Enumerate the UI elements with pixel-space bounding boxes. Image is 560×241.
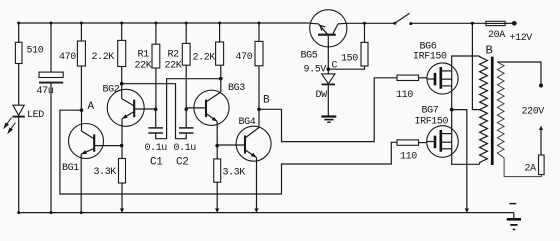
svg-text:LED: LED	[27, 110, 44, 121]
transistor BG4	[236, 126, 271, 161]
svg-text:2.2K: 2.2K	[193, 53, 216, 64]
capacitor C1	[155, 109, 157, 127]
zener diode DW	[327, 69, 329, 74]
node dot rail x219.6	[218, 22, 221, 25]
svg-text:22K: 22K	[165, 60, 182, 71]
transistor BG5	[310, 10, 347, 47]
wire secondary top to output terminal	[497, 62, 541, 85]
svg-text:R1: R1	[138, 49, 150, 60]
capacitor C2	[185, 109, 187, 127]
svg-text:BG4: BG4	[239, 117, 256, 128]
transformer core	[491, 57, 494, 165]
fuse 2A	[539, 155, 545, 175]
svg-text:+12V: +12V	[510, 33, 533, 44]
wire BG6 drain to primary top	[452, 56, 480, 110]
node dot rail x18.7	[17, 22, 20, 25]
svg-text:IRF150: IRF150	[413, 51, 447, 62]
svg-text:510: 510	[27, 46, 44, 57]
transistor BG3	[194, 90, 229, 125]
node dot bottom x81.2	[80, 211, 83, 214]
svg-text:IRF150: IRF150	[415, 116, 449, 127]
capacitor 47u	[50, 23, 52, 72]
switch S	[393, 22, 396, 25]
svg-text:R2: R2	[168, 49, 180, 60]
transformer secondary winding	[497, 62, 541, 177]
wire 2.2K to BG2 collector node	[121, 67, 123, 84]
wire top rail left	[19, 22, 310, 24]
junction arrow 3.3K to rail	[120, 209, 124, 213]
node dot rail x259	[258, 22, 261, 25]
svg-text:C1: C1	[150, 157, 163, 169]
LED light arrows	[4, 118, 15, 133]
resistor 470 second	[258, 23, 260, 41]
svg-text:2.2K: 2.2K	[92, 52, 115, 63]
svg-text:470: 470	[59, 52, 76, 63]
wire switch to fuse	[411, 22, 486, 24]
svg-text:B: B	[263, 95, 270, 107]
wire C2 bottom cross-couple to BG2 collector	[122, 84, 187, 139]
transistor BG1	[69, 124, 104, 159]
ground symbol right	[513, 213, 515, 219]
resistor 510	[18, 23, 20, 42]
LED D1	[13, 105, 24, 115]
wire node B to BG6 gate path	[259, 78, 397, 142]
transistor BG2	[107, 89, 144, 126]
node dot rail x51	[50, 22, 53, 25]
resistor R2 22K	[185, 23, 187, 43]
node dot R1/C1/BG2 base	[154, 108, 158, 112]
resistor 150	[363, 22, 366, 25]
node dot rail x155.9	[154, 22, 157, 25]
+12V terminal	[512, 21, 517, 26]
wire 470 to node A	[80, 66, 82, 110]
svg-text:3.3K: 3.3K	[223, 167, 246, 178]
wire 47u to bottom rail	[50, 84, 52, 213]
svg-text:BG5: BG5	[301, 51, 318, 62]
svg-text:150: 150	[341, 53, 358, 64]
svg-text:DW: DW	[316, 90, 328, 101]
junction arrow BG4 emitter to rail	[254, 209, 258, 213]
node dot BG6 source / BG7 drain	[450, 108, 454, 112]
node C dot	[327, 67, 331, 71]
wire R1 to base node of BG2	[155, 68, 157, 109]
wire LED to bottom rail	[18, 117, 20, 213]
wire DW to ground	[327, 84, 329, 115]
wire top rail BG5 to switch	[347, 22, 395, 24]
wire 470 to node B	[258, 66, 260, 127]
svg-text:110: 110	[400, 151, 417, 162]
junction arrow to rail	[465, 209, 469, 213]
wire node A to BG7 gate path	[60, 110, 397, 194]
node dot bottom x18.7	[17, 211, 20, 214]
svg-text:20A: 20A	[488, 30, 505, 41]
svg-text:C2: C2	[176, 157, 188, 169]
wire 2.2K to BG3 collector node	[220, 65, 222, 92]
svg-text:0.1u: 0.1u	[174, 143, 197, 154]
svg-text:0.1u: 0.1u	[145, 143, 168, 154]
wire BG7 source to primary bottom	[452, 110, 480, 165]
mosfet BG7 IRF150	[427, 126, 459, 158]
node dot R2/C2/BG3 base	[184, 108, 188, 112]
wire 150 to node C	[328, 66, 364, 69]
svg-text:B: B	[486, 43, 493, 57]
wire R2 to base node of BG3	[185, 65, 187, 109]
junction arrow 3.3K2 to rail	[215, 209, 219, 213]
node dot rail x81.4	[80, 22, 83, 25]
resistor R1 22K	[155, 23, 157, 44]
resistor 3.3K second	[216, 146, 218, 159]
svg-text:BG2: BG2	[103, 85, 120, 96]
svg-text:BG7: BG7	[422, 106, 439, 117]
transformer B primary winding	[480, 56, 488, 164]
svg-text:110: 110	[396, 90, 413, 101]
minus mark	[510, 203, 517, 205]
svg-text:470: 470	[236, 52, 253, 63]
node dot rail x186.2	[185, 22, 188, 25]
resistor 2.2K first	[121, 23, 123, 40]
terminal arrow 220V lower	[539, 126, 543, 131]
node dot BG2 collector	[120, 82, 124, 86]
svg-text:C: C	[332, 61, 338, 72]
ground below DW	[321, 115, 336, 117]
wire BG1 base to node	[94, 145, 121, 147]
node B	[257, 108, 261, 112]
wire 510 to LED	[18, 64, 20, 106]
node dot BG1 base / BG2 emitter / 3.3K	[120, 144, 124, 148]
wire C1 bottom cross-couple to BG3 collector	[156, 79, 221, 139]
wire fuse to +12V terminal	[505, 22, 513, 24]
bottom rail	[19, 212, 514, 214]
svg-text:220V: 220V	[522, 106, 545, 117]
svg-text:3.3K: 3.3K	[94, 167, 117, 178]
wire +12 branch down to center tap	[471, 22, 474, 25]
resistor 3.3K first	[121, 146, 123, 159]
resistor 2.2K second	[219, 23, 221, 42]
node dot BG3 collector	[219, 77, 223, 81]
wire node to ground rail	[452, 110, 467, 213]
node dot rail x121.7	[120, 22, 123, 25]
resistor 110 lower (BG7 gate)	[397, 140, 419, 145]
resistor 470 first	[80, 23, 82, 41]
svg-text:A: A	[88, 101, 95, 113]
node A	[80, 108, 84, 112]
node dot bottom x51	[50, 211, 53, 214]
node dot BG3 emitter / BG4 base / 3.3K	[215, 144, 219, 148]
svg-text:BG1: BG1	[62, 163, 79, 174]
svg-text:2A: 2A	[525, 164, 537, 175]
terminal dot 220V upper	[539, 84, 543, 88]
mosfet BG6 IRF150	[427, 63, 458, 94]
svg-text:BG3: BG3	[228, 83, 245, 94]
svg-text:22K: 22K	[135, 60, 152, 71]
fuse 20A	[486, 21, 505, 25]
resistor 110 upper (BG6 gate)	[397, 75, 419, 80]
